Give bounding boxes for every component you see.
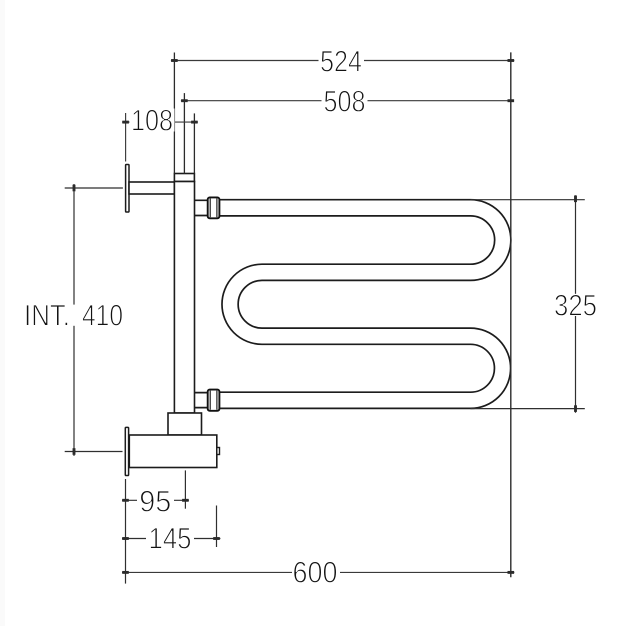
svg-text:145: 145 <box>149 523 192 556</box>
neck of bottom bracket <box>168 413 202 435</box>
post <box>174 182 194 414</box>
svg-text:508: 508 <box>324 86 366 119</box>
union fitting top <box>208 197 220 218</box>
dimension 145 <box>122 506 220 548</box>
union fitting bottom <box>208 390 220 411</box>
dimension INT. 410 <box>65 184 123 456</box>
dimension 600 <box>122 571 514 573</box>
dimension 524 <box>171 53 514 174</box>
towel tube inner contour path <box>219 216 495 392</box>
dimension 325 <box>471 195 585 412</box>
dimension 508 <box>181 93 514 173</box>
svg-text:410: 410 <box>82 300 123 333</box>
mounting arm top <box>129 182 174 194</box>
set screw bump <box>217 448 220 455</box>
svg-text:95: 95 <box>139 486 171 519</box>
svg-text:108: 108 <box>131 105 173 138</box>
svg-text:600: 600 <box>293 557 338 590</box>
post collar <box>174 174 194 182</box>
bottom stub pipe <box>195 393 208 408</box>
dimension 95 <box>122 470 189 583</box>
long right extension line (524/600) <box>510 52 512 577</box>
wall flange plate bottom <box>125 427 128 475</box>
towel tube outer contour path <box>219 200 511 409</box>
left scan strip <box>0 0 5 626</box>
top stub pipe <box>195 200 209 215</box>
svg-text:524: 524 <box>320 46 362 79</box>
bracket body <box>129 435 217 468</box>
wall flange plate top <box>126 165 129 213</box>
dimension 108 <box>122 113 198 174</box>
svg-text:INT.: INT. <box>24 300 70 333</box>
svg-text:325: 325 <box>554 289 597 322</box>
